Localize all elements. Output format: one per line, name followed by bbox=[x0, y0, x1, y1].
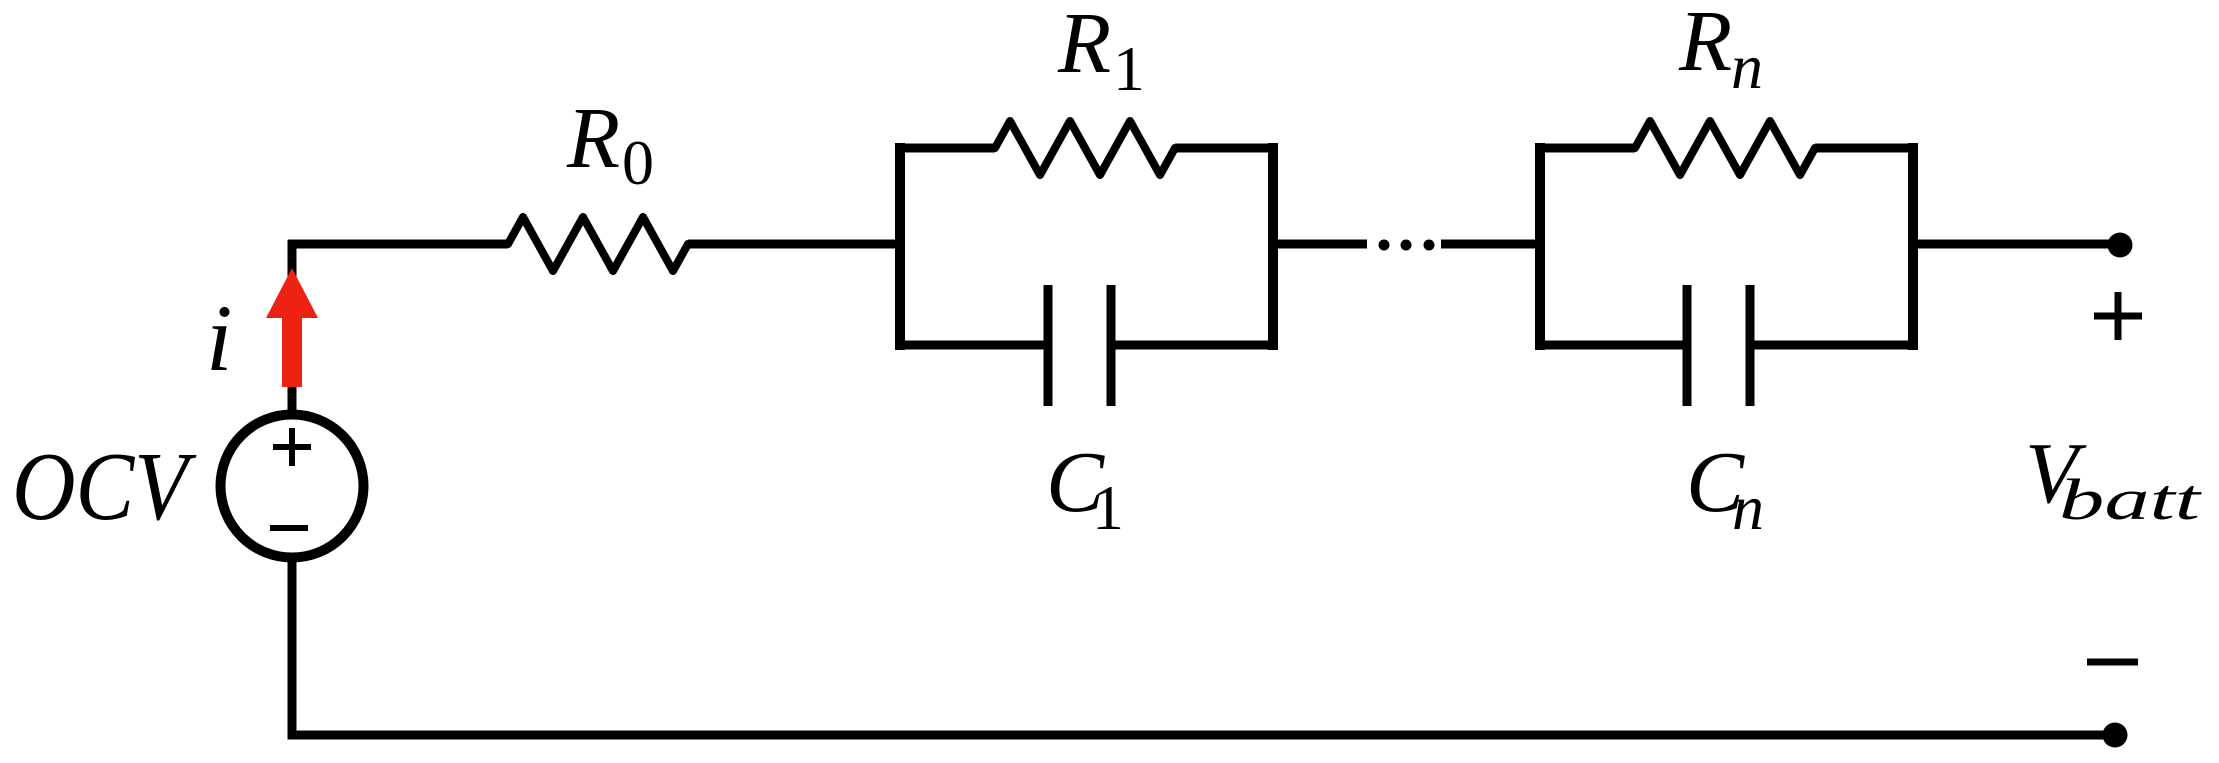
voltage source plus sign bbox=[273, 428, 311, 466]
resistor R0 bbox=[502, 217, 694, 271]
svg-text:n: n bbox=[1732, 472, 1764, 543]
svg-text:1: 1 bbox=[1092, 472, 1124, 543]
capacitor C1 bbox=[1048, 285, 1111, 406]
wire bottom branch left of block 2 bbox=[1535, 341, 1687, 350]
label C1 bbox=[1046, 433, 1124, 543]
label R1 bbox=[1057, 0, 1145, 104]
node negative terminal dot bbox=[2103, 723, 2128, 748]
svg-text:R: R bbox=[1057, 0, 1111, 91]
label Rn bbox=[1678, 0, 1763, 102]
wire block 1 to ellipsis bbox=[1273, 240, 1367, 249]
svg-text:n: n bbox=[1731, 31, 1763, 102]
svg-text:R: R bbox=[1678, 0, 1732, 89]
node right bar of RC block 1 bbox=[1268, 143, 1278, 350]
label R0 bbox=[566, 89, 654, 198]
wire bottom rail bbox=[288, 731, 2116, 740]
svg-text:batt: batt bbox=[2059, 467, 2203, 532]
svg-text:0: 0 bbox=[622, 127, 654, 198]
wire bottom branch left of block 1 bbox=[895, 341, 1048, 350]
wire top branch right of block 1 bbox=[1175, 144, 1278, 153]
svg-text:i: i bbox=[206, 285, 232, 391]
voltage source minus sign bbox=[270, 525, 308, 531]
wire top branch left of block 2 bbox=[1535, 144, 1635, 153]
svg-text:OCV: OCV bbox=[12, 433, 197, 540]
svg-text:R: R bbox=[566, 89, 620, 186]
voltage source OCV circle bbox=[221, 415, 364, 558]
node right bar of RC block 2 bbox=[1908, 143, 1918, 350]
wire bottom branch right of block 1 bbox=[1111, 341, 1278, 350]
svg-text:1: 1 bbox=[1113, 33, 1145, 104]
current arrow i bbox=[266, 268, 318, 387]
wire top branch right of block 2 bbox=[1815, 144, 1918, 153]
node left bar of RC block 2 bbox=[1535, 143, 1545, 350]
wire from source bottom to bottom rail bbox=[288, 558, 297, 740]
resistor Rn bbox=[1629, 121, 1821, 175]
ellipsis dots bbox=[1379, 240, 1435, 251]
label Vbatt bbox=[2025, 424, 2203, 532]
label Cn bbox=[1686, 433, 1764, 543]
capacitor Cn bbox=[1687, 285, 1750, 406]
wire bottom branch right of block 2 bbox=[1750, 341, 1918, 350]
wire vertical from top corner to source bbox=[288, 240, 297, 412]
wire ellipsis to block 2 bbox=[1441, 240, 1540, 249]
wire top branch left of block 1 bbox=[895, 144, 995, 153]
terminal minus sign bbox=[2087, 659, 2138, 666]
wire R0 to RC block 1 bbox=[688, 240, 900, 249]
label OCV bbox=[12, 433, 197, 540]
wire top-left horizontal from source to R0 bbox=[288, 240, 508, 249]
wire block 2 to positive terminal bbox=[1913, 240, 2118, 249]
node positive terminal dot bbox=[2108, 233, 2133, 258]
label i bbox=[206, 285, 232, 391]
resistor R1 bbox=[989, 121, 1181, 175]
node left bar of RC block 1 bbox=[895, 143, 905, 350]
terminal plus sign bbox=[2094, 292, 2142, 340]
